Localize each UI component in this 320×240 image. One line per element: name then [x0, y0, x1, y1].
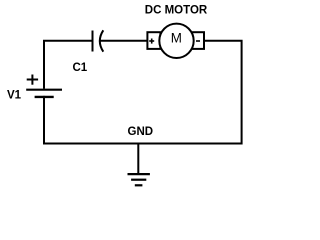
ground stem wire — [137, 144, 139, 175]
svg-text:DC MOTOR: DC MOTOR — [145, 4, 208, 16]
ground bar 1 — [128, 173, 150, 175]
svg-text:V1: V1 — [7, 89, 22, 101]
motor minus terminal sign — [196, 40, 200, 42]
svg-text:C1: C1 — [73, 62, 88, 74]
ground bar 3 — [135, 184, 143, 186]
ground bar 2 — [131, 179, 146, 181]
motor plus terminal sign — [149, 39, 154, 44]
motor left terminal rectangle — [147, 32, 160, 49]
battery V1 positive long plate — [26, 89, 62, 91]
capacitor C1 curved plate — [100, 30, 104, 51]
capacitor C1 left plate — [92, 31, 94, 52]
wire capacitor to motor — [100, 40, 148, 42]
motor right terminal rectangle — [192, 32, 204, 49]
battery plus sign — [27, 75, 38, 85]
wire top-left from capacitor to corner and down to battery — [44, 41, 94, 89]
motor body circle — [159, 24, 193, 58]
svg-text:GND: GND — [128, 126, 154, 138]
battery V1 negative short plate — [35, 96, 54, 98]
svg-text:M: M — [171, 31, 182, 46]
wire from battery down, bottom wire, right wire up to motor — [44, 41, 242, 144]
